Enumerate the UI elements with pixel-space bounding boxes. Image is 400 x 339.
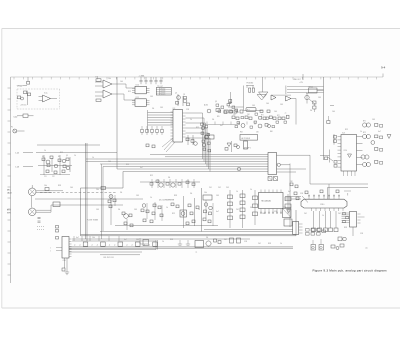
svg-text:IC20: IC20	[344, 150, 347, 152]
svg-text:RY2: RY2	[363, 132, 366, 134]
svg-text:R12: R12	[196, 127, 199, 129]
svg-text:10k: 10k	[204, 192, 207, 194]
svg-text:4u7: 4u7	[288, 191, 291, 193]
svg-text:R64: R64	[240, 132, 243, 134]
svg-text:>: >	[50, 249, 51, 252]
svg-text:+5V 15m: +5V 15m	[20, 105, 27, 107]
svg-text:TP GND: TP GND	[160, 90, 165, 92]
svg-text:TP GND: TP GND	[160, 92, 165, 94]
svg-text:C61: C61	[233, 114, 236, 116]
svg-text:D4: D4	[206, 237, 208, 239]
svg-text:C66: C66	[256, 132, 259, 134]
svg-text:D4: D4	[212, 119, 214, 121]
svg-text:R8: R8	[42, 156, 44, 158]
svg-text:1k: 1k	[74, 155, 76, 157]
svg-text:REG5: REG5	[309, 86, 313, 88]
svg-text:100: 100	[120, 81, 123, 83]
svg-text:VR20: VR20	[17, 85, 23, 87]
svg-text:R12: R12	[60, 152, 63, 154]
svg-text:R33: R33	[268, 243, 271, 245]
svg-text:2k2: 2k2	[258, 243, 261, 245]
svg-text:1k: 1k	[150, 197, 152, 199]
svg-text:R71: R71	[261, 115, 264, 117]
svg-text:4u7: 4u7	[306, 93, 309, 95]
svg-text:R55: R55	[217, 116, 220, 118]
svg-text:Q1: Q1	[175, 92, 177, 94]
svg-text:CN1: CN1	[63, 260, 66, 262]
svg-text:4u7: 4u7	[124, 239, 127, 241]
svg-text:10k: 10k	[96, 189, 99, 191]
svg-text:R72: R72	[277, 115, 280, 117]
svg-text:C18: C18	[244, 241, 247, 243]
svg-text:D4: D4	[152, 108, 154, 110]
svg-text:9-4: 9-4	[381, 66, 386, 70]
svg-text:1k: 1k	[250, 189, 252, 191]
svg-text:R12: R12	[126, 164, 129, 166]
svg-text:100: 100	[70, 187, 73, 189]
svg-text:D4: D4	[190, 193, 192, 195]
svg-text:C41: C41	[209, 187, 212, 189]
svg-text:IC1a: IC1a	[44, 93, 47, 95]
svg-text:C22: C22	[52, 176, 55, 178]
svg-text:C42: C42	[218, 187, 221, 189]
svg-text:+5: +5	[285, 112, 287, 114]
svg-text:4u7: 4u7	[76, 237, 79, 239]
svg-text:4u7: 4u7	[140, 167, 143, 169]
svg-text:1k: 1k	[236, 191, 238, 193]
svg-text:R12: R12	[172, 213, 175, 215]
svg-text:C45: C45	[134, 209, 137, 211]
svg-text:1k: 1k	[322, 215, 324, 217]
svg-text:1k: 1k	[162, 241, 164, 243]
svg-text:C45: C45	[280, 104, 283, 106]
svg-text:1k: 1k	[360, 131, 362, 133]
svg-text:TP GND: TP GND	[160, 94, 165, 96]
svg-text:R12: R12	[345, 129, 348, 131]
svg-text:TP LIST: TP LIST	[157, 86, 163, 88]
svg-text:C45: C45	[136, 239, 139, 241]
svg-text:100: 100	[274, 111, 277, 113]
svg-text:P1: P1	[11, 127, 13, 129]
svg-text:C18: C18	[186, 109, 189, 111]
svg-text:1k: 1k	[190, 119, 192, 121]
svg-text:Q2: Q2	[183, 94, 185, 96]
svg-text:C43: C43	[226, 187, 229, 189]
svg-text:CN10: CN10	[320, 204, 324, 206]
svg-text:10k: 10k	[92, 237, 95, 239]
svg-text:D4: D4	[118, 209, 120, 211]
svg-text:C18: C18	[360, 233, 363, 235]
svg-text:1k: 1k	[198, 209, 200, 211]
svg-text:10k: 10k	[44, 185, 47, 187]
svg-text:1k: 1k	[44, 150, 46, 152]
svg-text:C18: C18	[95, 77, 98, 79]
svg-text:C45: C45	[216, 195, 219, 197]
svg-text:R33: R33	[58, 185, 61, 187]
svg-text:LINE OUT: LINE OUT	[293, 79, 301, 81]
svg-text:TP GND: TP GND	[160, 88, 165, 90]
svg-text:R12: R12	[128, 91, 131, 93]
svg-text:IC10: IC10	[136, 85, 140, 87]
svg-text:RY1: RY1	[363, 121, 366, 123]
svg-text:2k2: 2k2	[338, 213, 341, 215]
svg-text:D4: D4	[120, 192, 122, 194]
svg-text:RL1: RL1	[247, 110, 250, 112]
svg-text:C45: C45	[136, 195, 139, 197]
svg-text:100: 100	[108, 161, 111, 163]
svg-text:100: 100	[266, 103, 269, 105]
svg-text:C45: C45	[160, 107, 163, 109]
svg-text:100: 100	[332, 111, 335, 113]
svg-text:>: >	[50, 246, 51, 249]
svg-text:R33: R33	[170, 239, 173, 241]
svg-text:T1: T1	[196, 252, 198, 254]
svg-text:C21: C21	[44, 176, 47, 178]
svg-text:R12: R12	[150, 175, 153, 177]
svg-text:Figure 9.3 Main pcb, analog pa: Figure 9.3 Main pcb, analog part circuit…	[313, 268, 387, 272]
svg-text:4u7: 4u7	[378, 131, 381, 133]
svg-text:2k2: 2k2	[224, 239, 227, 241]
svg-text:4u7: 4u7	[220, 125, 223, 127]
svg-text:IC11: IC11	[136, 97, 139, 99]
svg-text:+5 ANA: +5 ANA	[139, 74, 146, 77]
svg-text:JACK: JACK	[7, 192, 13, 195]
svg-text:DC CONVERTER: DC CONVERTER	[159, 200, 175, 202]
svg-text:R33: R33	[344, 227, 347, 229]
svg-text:IC3: IC3	[173, 108, 176, 110]
svg-text:4u7: 4u7	[216, 211, 219, 213]
svg-text:1k: 1k	[280, 243, 282, 245]
svg-text:C45: C45	[318, 97, 321, 99]
svg-text:10k: 10k	[108, 78, 111, 80]
svg-text:CN3: CN3	[283, 207, 286, 209]
svg-text:MC145540: MC145540	[262, 201, 271, 203]
svg-text:2k2: 2k2	[236, 209, 239, 211]
svg-text:C45: C45	[150, 96, 153, 98]
svg-text:D4: D4	[310, 110, 312, 112]
svg-text:2k2: 2k2	[304, 213, 307, 215]
svg-text:Q9: Q9	[229, 102, 231, 104]
svg-text:R33: R33	[174, 195, 177, 197]
svg-text:R9: R9	[58, 156, 60, 158]
svg-text:1k: 1k	[92, 157, 94, 159]
svg-text:J101 J102 J103: J101 J102 J103	[103, 257, 114, 259]
svg-text:C45: C45	[372, 119, 375, 121]
svg-text:R12: R12	[236, 112, 239, 114]
svg-text:R68: R68	[270, 131, 273, 133]
svg-text:100: 100	[262, 213, 265, 215]
svg-text:1k: 1k	[166, 207, 168, 209]
svg-text:Q3: Q3	[66, 155, 68, 157]
svg-text:C62: C62	[247, 114, 250, 116]
svg-text:D4: D4	[250, 207, 252, 209]
svg-text:C45: C45	[96, 209, 99, 211]
svg-text:IC21: IC21	[342, 133, 345, 135]
svg-text:C45: C45	[252, 105, 255, 107]
svg-text:Q8: Q8	[215, 101, 217, 103]
svg-text:C82: C82	[290, 181, 293, 183]
svg-text:C18: C18	[274, 211, 277, 213]
svg-text:C18: C18	[300, 193, 303, 195]
svg-text:D4: D4	[168, 177, 170, 179]
